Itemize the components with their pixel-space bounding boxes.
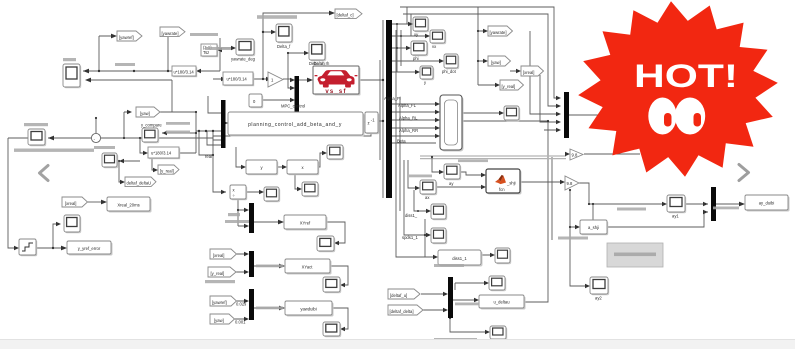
svg-text:[y_real]: [y_real]	[502, 84, 516, 89]
svg-text:Alpha_RL: Alpha_RL	[399, 116, 418, 121]
wire yaw goto feed	[124, 112, 130, 138]
svg-text:u*180/3.14: u*180/3.14	[174, 69, 195, 74]
svg-text:real: real	[205, 154, 212, 159]
unit delay (z-1)/Tsz	[201, 44, 218, 57]
wire nested verticals near bus	[396, 30, 434, 257]
wire delta_rh scope feed	[288, 53, 306, 88]
label 期望横向加速度 below a_shji	[558, 237, 588, 240]
scope diss1_1	[495, 248, 511, 264]
label X轨迹	[228, 213, 240, 216]
svg-text:[y_real]: [y_real]	[160, 168, 174, 173]
svg-text:[yawref]: [yawref]	[119, 35, 134, 40]
svg-text:planning_control_add_beta_and_: planning_control_add_beta_and_y	[248, 122, 342, 128]
subsystem tall	[440, 95, 464, 152]
svg-text:u*180/3.14: u*180/3.14	[227, 77, 248, 82]
mux M5	[249, 289, 254, 320]
demux bus M6	[386, 20, 392, 198]
label 已对横向位移误差20ms输出一次	[14, 149, 94, 152]
block diss1_1	[438, 250, 483, 267]
from tag [yawref] 2	[210, 296, 237, 306]
scope spds1_1	[431, 228, 447, 244]
goto tag [xreal] r	[521, 66, 544, 76]
wire goto tags feeds	[478, 7, 517, 85]
wire scope1 second input	[86, 80, 196, 112]
wire top long feedback lines	[400, 7, 557, 106]
svg-text:Alpha_FL: Alpha_FL	[398, 103, 417, 108]
scope Delta_rh	[309, 42, 326, 61]
svg-text:ay1: ay1	[672, 214, 679, 219]
svg-text:_shji: _shji	[506, 181, 516, 186]
scope y	[420, 66, 434, 80]
unit delay z-1	[365, 112, 379, 134]
wire G2 in/out	[213, 78, 267, 80]
svg-text:[deltaf_c]: [deltaf_c]	[337, 12, 354, 17]
gain 9.8 #2	[565, 176, 579, 190]
scope XYref	[317, 236, 335, 252]
wire alpha labels to subsystem	[392, 104, 436, 143]
scope ay2	[590, 277, 609, 295]
wire mux M7 out	[569, 114, 600, 116]
svg-text:[xreal]: [xreal]	[213, 253, 224, 258]
svg-text:diss1_1: diss1_1	[452, 256, 467, 261]
wire z-1 to bus	[363, 121, 383, 122]
zero-order hold	[19, 239, 37, 256]
scope mid	[264, 187, 280, 202]
block a_shji small	[580, 220, 608, 235]
wire gray accel pair	[420, 156, 566, 159]
label 在整车0.02s输出一次	[256, 265, 283, 268]
subsystem planning_control_add_beta_and_y	[228, 112, 365, 137]
mux M7	[564, 92, 569, 138]
sum junction	[91, 133, 100, 142]
wire u_deltau group	[421, 283, 486, 332]
wire mux M8 to ay_duibi	[716, 203, 741, 205]
svg-text:0.02s: 0.02s	[236, 302, 246, 307]
label 前轮转角控制量	[434, 264, 464, 267]
mux M2	[221, 100, 226, 148]
svg-text:[xreal]: [xreal]	[65, 201, 76, 206]
svg-text:XYact: XYact	[302, 265, 314, 270]
scope F	[504, 106, 520, 121]
svg-text:Alpha_RR: Alpha_RR	[399, 128, 418, 133]
svg-text:fcn: fcn	[499, 187, 505, 192]
svg-text:y_compare: y_compare	[141, 123, 162, 128]
wire mux M4 group	[236, 254, 348, 285]
matlab fcn block a_shji	[486, 169, 522, 195]
from tag [xreal] 2	[210, 249, 237, 259]
mux M3	[249, 203, 254, 233]
gain u*180/3.14 G2	[223, 72, 254, 86]
scope 横向位移误差	[28, 129, 46, 146]
svg-text:y_yref_error: y_yref_error	[78, 246, 101, 251]
goto tag deltaf_deltaU	[125, 177, 156, 187]
wire mux M1 to vs_sf	[299, 79, 309, 81]
gain u*180/3.14 G3	[148, 147, 180, 159]
scope diss1_	[431, 204, 447, 220]
matlab logo	[495, 176, 506, 184]
scope ay	[444, 164, 461, 180]
scope bottom	[490, 326, 507, 340]
block XYact	[285, 259, 332, 275]
block u_deltau	[479, 295, 526, 310]
svg-text:[yawrate]: [yawrate]	[162, 31, 179, 36]
svg-text:diss1_: diss1_	[405, 213, 418, 218]
wire const0 to mux	[262, 99, 291, 101]
scope vx	[430, 30, 446, 44]
left carousel chevron	[40, 166, 49, 181]
wire mux M2 inputs	[196, 96, 228, 155]
svg-text:[y_real]: [y_real]	[211, 271, 225, 276]
block yawduibi	[285, 301, 334, 317]
block y_yref_error	[67, 241, 113, 256]
wire diss1_1 group	[425, 219, 491, 257]
scope XYact	[323, 277, 341, 293]
svg-text:[yaw]: [yaw]	[214, 318, 224, 323]
svg-text:[yaw]: [yaw]	[491, 60, 501, 65]
label gray near accel line	[458, 160, 488, 163]
svg-text:u_deltau: u_deltau	[493, 300, 510, 305]
gain triangle 1	[268, 72, 283, 87]
scope ax	[420, 180, 437, 195]
goto tag [yaw] r	[488, 56, 511, 66]
svg-text:9.8: 9.8	[567, 181, 573, 186]
wire scope u-inc	[119, 161, 140, 182]
svg-text:-1: -1	[371, 118, 375, 123]
label 在整车0.02s输出一次 3	[455, 303, 479, 306]
svg-text:spds1_1: spds1_1	[402, 235, 419, 240]
mux M4	[249, 251, 254, 277]
footer strip	[0, 340, 795, 349]
svg-text:deltaf_deltaU: deltaf_deltaU	[127, 181, 152, 186]
svg-text:[deltaf_u]: [deltaf_u]	[390, 293, 407, 298]
svg-text:Delta_f: Delta_f	[277, 44, 291, 49]
scope yawduibi	[323, 322, 341, 337]
label 前轮转角增量控制增量	[434, 338, 477, 341]
wire gain1 to mux M1	[283, 78, 291, 80]
scope phi	[411, 41, 428, 56]
scope Delta_f	[276, 24, 293, 43]
goto tag [deltaf_u]	[388, 289, 420, 299]
wire gain1 out under badge	[584, 153, 640, 155]
gain u*180/3.14 G1	[172, 66, 197, 77]
svg-text:9.8: 9.8	[572, 153, 578, 158]
svg-text:HOT!: HOT!	[634, 58, 738, 94]
wire subsystem outputs	[462, 113, 552, 302]
scope yawrate_deg	[236, 39, 255, 56]
svg-text:Tsz: Tsz	[203, 50, 209, 55]
svg-text:phi: phi	[413, 56, 419, 61]
label 期望横摆角	[115, 63, 135, 66]
svg-text:yawduibi: yawduibi	[300, 307, 316, 312]
wire vertical x263 control signal	[263, 13, 331, 79]
mux M8	[711, 187, 716, 221]
product block	[230, 185, 247, 200]
svg-text:ay_duibi: ay_duibi	[759, 201, 775, 206]
svg-text:[yawrate]: [yawrate]	[490, 30, 507, 35]
scope top-mid	[327, 145, 344, 160]
car icon	[318, 70, 355, 87]
goto tag [yaw] left	[136, 107, 160, 117]
scope above u_deltau	[489, 276, 506, 291]
scope 横摆角	[63, 64, 81, 88]
svg-text:phi_dot: phi_dot	[442, 69, 457, 74]
from tag [y_real] 2	[208, 267, 236, 277]
svg-text:0.001: 0.001	[235, 320, 246, 325]
wire ZOH chain	[8, 138, 63, 248]
svg-text:Beta: Beta	[397, 139, 406, 144]
label 0.001s输出一次	[205, 280, 235, 283]
label 控制量、前轮转角	[257, 15, 297, 19]
svg-text:a_shji: a_shji	[588, 225, 599, 230]
wire ay ax to fcn	[408, 157, 482, 188]
const 0	[249, 94, 263, 108]
svg-text:[yawref]: [yawref]	[212, 300, 227, 305]
wire under planning feedback	[213, 133, 371, 155]
block x	[287, 160, 319, 175]
scope y_compare	[142, 128, 159, 143]
scope phi_dot	[444, 54, 459, 69]
wire mux M7 lower inputs	[530, 31, 557, 130]
subsystem vs_sf	[313, 61, 361, 96]
wire mux M3 group	[238, 192, 345, 243]
block XYref	[284, 215, 328, 231]
wire gain2 out chain	[570, 183, 663, 286]
wire yawrate tag feed	[167, 36, 169, 71]
wire mux M5 group	[234, 301, 348, 329]
goto tag [yawrate] r	[488, 26, 513, 36]
goto tag [deltaf_c]	[335, 9, 362, 19]
block Xreal_20ms	[107, 197, 152, 213]
svg-text:[xreal]: [xreal]	[523, 70, 534, 75]
mux M9	[448, 277, 453, 318]
svg-text:Alpha_Fl: Alpha_Fl	[384, 96, 401, 101]
wire G3 gain group	[140, 138, 196, 170]
label 此块0.02s输出一次	[713, 207, 739, 210]
gray annotation box 期望横向加速度	[607, 243, 663, 267]
wire bus right stubs to cascade scopes	[392, 24, 440, 72]
scope mid2	[302, 182, 319, 197]
goto tag [y_real]	[158, 165, 179, 174]
svg-text:[yaw]: [yaw]	[140, 111, 150, 116]
goto tag [y_real] r	[500, 80, 524, 90]
right carousel chevron	[739, 165, 749, 181]
from tag [yawrate]	[160, 27, 185, 37]
goto tag [deltaf_delta]	[388, 305, 423, 315]
svg-text:ay2: ay2	[595, 296, 602, 301]
from tag [yaw] 2	[210, 314, 235, 324]
svg-text:z: z	[368, 121, 370, 126]
scope lower-left	[64, 215, 81, 233]
wire sum to scope2	[48, 118, 213, 138]
label 在整车0.02s输出一次 2	[256, 307, 283, 310]
label 实际横摆角速度 2	[205, 47, 231, 50]
block y	[246, 160, 278, 175]
svg-text:XYref: XYref	[300, 221, 311, 226]
mux M1	[295, 76, 300, 113]
label 实际横向加速度	[617, 208, 646, 211]
block ay_duibi	[745, 195, 790, 212]
labels 期望/实际横向位移	[166, 122, 190, 125]
from tag [xreal]	[62, 197, 88, 207]
hot badge starburst	[578, 1, 778, 177]
svg-text:u*180/3.14: u*180/3.14	[151, 150, 172, 155]
svg-text:vs_sf: vs_sf	[325, 89, 346, 95]
label 横摆角	[63, 58, 76, 61]
gain 9.8 #1	[570, 149, 583, 160]
wire a_shji out to mux M8	[607, 204, 708, 227]
wire fcn out to gain	[520, 181, 561, 183]
svg-text:Xreal_20ms: Xreal_20ms	[117, 203, 139, 208]
svg-text:Delta_rh: Delta_rh	[314, 61, 330, 66]
00 goggles icon	[648, 98, 676, 135]
scope 控制量增量	[102, 153, 118, 168]
wire vs_sf out to vertical bus	[359, 20, 383, 198]
label 期望横向加速度 gray above ax	[409, 175, 432, 178]
wire planning low outputs	[213, 147, 324, 192]
svg-text:[deltaf_delta]: [deltaf_delta]	[390, 309, 414, 314]
scope ay1	[667, 195, 686, 213]
scope xy	[413, 17, 429, 32]
svg-text:MPC_control: MPC_control	[281, 104, 305, 109]
wire y_compare feeds	[160, 112, 196, 153]
wire xreal to Xreal_20ms	[87, 201, 103, 203]
wire unit delay to yawrate_deg scope	[217, 47, 232, 49]
label 实际横摆角速度	[190, 33, 218, 36]
from tag [yawref]	[117, 31, 142, 41]
wire scope1 to gain row	[83, 36, 220, 71]
svg-text:yawrate_deg: yawrate_deg	[231, 57, 256, 62]
